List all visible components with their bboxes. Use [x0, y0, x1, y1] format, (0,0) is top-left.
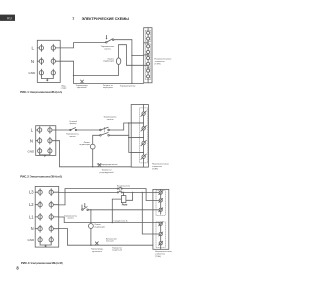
heating element E1 — [147, 31, 150, 40]
wire vertical feed bus — [128, 123, 130, 152]
heating element E4 dashed box — [145, 68, 150, 80]
wire TS3 output to entry E3 — [88, 209, 159, 211]
heating group B chain — [160, 223, 162, 250]
terminal N out of TB2 — [48, 137, 56, 144]
svg-text:Электрическая схема ЭВН (тип А: Электрическая схема ЭВН (тип А) — [30, 90, 63, 94]
wire N branch to lamp — [74, 74, 119, 76]
ground symbol of TB2 — [44, 155, 47, 157]
wire TS2 pole1 output — [109, 129, 123, 131]
svg-text:РИС.1: РИС.1 — [20, 90, 29, 94]
junction dot lamp to N bus — [92, 166, 93, 167]
label Нагревательные элементы of box 3 — [155, 251, 173, 258]
wire lamp top riser of LA3 — [90, 210, 92, 224]
terminal block TB1 — [37, 40, 60, 82]
wire vertical bus from node A down — [131, 40, 133, 84]
heater enclosure box of schematic 2 — [131, 105, 148, 168]
label Нагревательные элементы right of box — [155, 58, 173, 65]
svg-text:L3: L3 — [29, 190, 34, 195]
label Термовыключатель under TS1 — [101, 46, 115, 50]
relay left pin — [112, 198, 121, 200]
terminal N out of TB3 — [49, 225, 59, 232]
terminal L3 out of TB3 — [49, 189, 59, 196]
label Лампа индикации right of LA3 — [94, 224, 105, 228]
wire L2 riser — [64, 189, 66, 205]
wire stub bus to chain lower — [144, 54, 148, 56]
thermal cutout switch TS1 — [106, 35, 114, 43]
junction dot lamp top — [90, 209, 91, 210]
label Нагревательные элементы of box 2 — [152, 164, 170, 171]
wire tap low of box 2 — [131, 151, 143, 153]
wire L2 top line — [65, 188, 146, 190]
junction dot L3 at relay right — [132, 192, 133, 193]
wire entry E2 — [146, 199, 159, 201]
wire GND link bar of TB3 — [40, 243, 51, 245]
junction dot chain upper — [148, 42, 149, 43]
label under F2 — [66, 134, 79, 138]
svg-text:GND: GND — [28, 238, 36, 242]
terminal GND of TB1 — [39, 69, 43, 76]
section title — [72, 17, 129, 21]
wire GND link bar of TB2 — [40, 154, 50, 155]
wire L2 drop to box entry E2 — [145, 189, 147, 201]
wire L3 drop bus — [141, 192, 143, 234]
mechanical link of TS2 poles — [104, 127, 106, 132]
heating element E9 — [159, 191, 163, 195]
wire L1 from TB3 — [59, 216, 64, 218]
svg-text:GND: GND — [28, 71, 36, 75]
svg-text:N: N — [31, 226, 34, 231]
heating group A dashed box — [156, 191, 165, 216]
thermal fuse F4 — [95, 242, 98, 245]
wire lamp bottom riser — [118, 65, 120, 76]
svg-text:регулируемый: регулируемый — [100, 171, 115, 174]
terminal L1 out of TB3 — [49, 213, 59, 220]
wire lamp to TS2 pole 2 — [93, 135, 100, 144]
svg-text:индикации: индикации — [103, 61, 115, 63]
svg-text:Соединение Δ: Соединение Δ — [114, 220, 128, 223]
junction dot node A3 — [131, 83, 132, 84]
heating element E13 — [159, 232, 163, 236]
terminal L of TB2 — [36, 127, 42, 134]
terminal L3 of TB3 — [35, 189, 42, 196]
terminal block TB3 — [35, 186, 59, 247]
svg-text:Термопредохранитель: Термопредохранитель — [97, 164, 118, 166]
wire N from TB2 — [56, 140, 60, 142]
svg-text:чатель: чатель — [107, 119, 115, 121]
wire L1 drop — [63, 217, 65, 223]
indicator lamp LA1 — [116, 58, 120, 65]
label Терморегулятор — [120, 86, 137, 88]
svg-text:RU: RU — [7, 17, 12, 21]
indicator lamp LA3 — [89, 224, 94, 229]
heating element E12 — [159, 222, 163, 226]
svg-text:(ТЭН): (ТЭН) — [155, 63, 161, 65]
label Лампа индикации left of LA1 — [103, 58, 115, 62]
thermostat switch TS2 pole 2 — [100, 133, 110, 137]
terminal N of TB1 — [37, 58, 43, 65]
RU language tab — [0, 15, 15, 21]
junction dot tap upper — [131, 122, 132, 123]
heating group B dashed box — [156, 222, 165, 248]
label Термопредохранитель under F4 — [91, 249, 104, 253]
wire entry E5 — [142, 233, 159, 235]
svg-text:чатель: чатель — [104, 48, 112, 50]
label Защита от перегрева — [103, 85, 114, 89]
svg-text:L: L — [32, 46, 35, 51]
svg-text:L2: L2 — [29, 202, 34, 207]
line fuse F2 on wire L — [70, 128, 77, 131]
heating element E10 — [159, 198, 163, 202]
wire lamp bottom riser of LA3 — [90, 228, 92, 245]
junction dot feed mid — [128, 137, 129, 138]
label above F2 — [69, 120, 77, 125]
terminal GND out of TB3 — [49, 236, 53, 243]
svg-text:L1: L1 — [29, 214, 34, 219]
svg-text:чатель: чатель — [67, 218, 74, 220]
junction dot relay to L1 line — [112, 222, 113, 223]
wire L from TB1 — [60, 43, 105, 48]
junction dot chain lower — [148, 54, 149, 55]
wire lamp top riser — [118, 45, 120, 58]
wire GND link bar — [41, 76, 53, 78]
junction dot feed bus — [128, 122, 129, 123]
mechanical link of main switch poles — [119, 188, 121, 192]
heating element E3 dashed box — [145, 56, 150, 68]
thermal fuse F1 — [81, 80, 84, 83]
terminal L2 of TB3 — [35, 201, 42, 208]
wire lamp top horizontal — [119, 44, 127, 46]
heating element E2 — [147, 45, 150, 54]
label Термостат right — [112, 247, 123, 251]
terminal GND out of TB1 — [51, 69, 55, 76]
heater enclosure box of schematic 3 — [153, 189, 169, 249]
svg-text:8: 8 — [16, 266, 19, 271]
heating element E8 — [141, 154, 146, 159]
label Термостат under F3 — [100, 170, 115, 174]
heating element dashed box of schematic 2 — [140, 108, 148, 163]
wire N descender — [59, 141, 61, 167]
relay RL1 — [121, 196, 126, 203]
terminal L2 out of TB3 — [49, 201, 59, 208]
caption РИС.2 — [20, 174, 62, 178]
junction dot lamp bottom — [90, 245, 91, 246]
wire riser to heater feed — [123, 123, 125, 130]
wire relay left drop — [111, 199, 113, 222]
svg-text:хранитель: хранитель — [92, 251, 102, 253]
junction dot tap low — [131, 152, 132, 153]
terminal N of TB3 — [35, 225, 42, 232]
wire relay right riser — [132, 192, 134, 200]
relay top pin — [123, 192, 125, 195]
svg-text:питания: питания — [106, 241, 114, 243]
junction dot node A2 — [131, 55, 132, 56]
ground symbol of TB3 — [44, 245, 47, 247]
svg-text:ЭЛЕКТРИЧЕСКИЕ СХЕМЫ: ЭЛЕКТРИЧЕСКИЕ СХЕМЫ — [82, 17, 130, 21]
wire lamp bottom riser of LA2 — [92, 149, 94, 167]
heating element E14 — [159, 241, 163, 245]
svg-text:индикации: индикации — [79, 144, 90, 146]
wire N bottom line — [60, 166, 132, 168]
relay right pin — [126, 199, 133, 201]
terminal block TB2 — [36, 126, 56, 156]
wire lamp branch to heater box — [126, 64, 147, 66]
main switch pole 2 contacts — [117, 187, 122, 189]
heating group A chain — [160, 189, 162, 214]
ground symbol of TB1 — [46, 79, 49, 82]
svg-text:перегрева: перегрева — [103, 87, 114, 89]
heating element E3 — [147, 56, 150, 65]
svg-text:GND: GND — [28, 149, 36, 153]
main switch pole 1 contacts — [117, 191, 122, 193]
wire N descender — [73, 61, 75, 83]
svg-text:(ТЭН): (ТЭН) — [155, 256, 161, 258]
label Лампа индикации left of LA2 — [79, 142, 90, 146]
terminal L out of TB1 — [51, 44, 60, 51]
svg-text:Выключатель: Выключатель — [117, 185, 130, 187]
svg-text:фильтр: фильтр — [70, 122, 78, 125]
wire tap mid of box 2 — [131, 137, 143, 139]
wire feed mid stub — [129, 137, 144, 139]
wire heater feed top — [124, 122, 144, 124]
svg-text:РИС.2: РИС.2 — [20, 174, 29, 178]
junction dot lamp branch at chain — [146, 65, 147, 66]
caption РИС.3 — [21, 261, 63, 265]
heating element E11 — [159, 208, 163, 212]
svg-text:Электрическая схема ЭВН (тип Б: Электрическая схема ЭВН (тип Б) — [30, 174, 63, 178]
heating element E1 dashed box — [145, 30, 150, 42]
wire tap upper of box 2 — [131, 122, 143, 124]
svg-text:L: L — [31, 128, 34, 133]
heating element chain bus — [147, 28, 149, 83]
heating element E6 — [141, 126, 146, 131]
svg-text:Электрическая схема ЭВН (тип В: Электрическая схема ЭВН (тип В) — [30, 261, 63, 265]
terminal GND of TB3 — [38, 236, 42, 243]
svg-text:чатель: чатель — [69, 136, 76, 138]
wire N from TB1 — [60, 60, 73, 62]
wire feed low stub — [129, 151, 144, 153]
svg-text:РИС.3: РИС.3 — [21, 261, 30, 265]
svg-text:Терморегулятор: Терморегулятор — [120, 86, 137, 88]
thermal fuse F3 — [98, 163, 101, 166]
wire N descender of schematic 3 — [66, 229, 68, 246]
heater enclosure box of schematic 1 — [144, 28, 152, 83]
wire N from TB3 — [59, 228, 68, 230]
heating element E5 — [141, 111, 146, 116]
junction dot L3 at relay top — [123, 192, 124, 193]
wire L from TB2 — [56, 129, 100, 131]
junction dot L3 at bus — [142, 192, 143, 193]
junction dot tap mid — [131, 137, 132, 138]
svg-text:7: 7 — [72, 17, 74, 21]
terminal L1 of TB3 — [35, 213, 42, 220]
svg-text:(ТЭН): (ТЭН) — [152, 169, 158, 171]
thermostat switch TS3 — [82, 203, 89, 210]
caption РИС.1 — [20, 90, 62, 94]
label Термовыключатель under TS3 — [64, 215, 77, 219]
svg-text:N: N — [31, 59, 34, 64]
wire node A2 to heater box — [132, 54, 144, 56]
terminal L of TB1 — [37, 44, 43, 51]
wire N bottom line — [74, 82, 144, 84]
terminal GND of TB2 — [38, 148, 42, 155]
heating element E7 — [141, 140, 146, 145]
label above N line right — [106, 238, 118, 242]
svg-text:индикации: индикации — [94, 227, 105, 229]
terminal L out of TB2 — [48, 127, 56, 134]
heating element chain bus of schematic 2 — [143, 105, 145, 168]
heating element E2 dashed box — [145, 44, 150, 55]
wire L2 from TB3 — [59, 204, 65, 206]
junction dot N branch — [73, 75, 74, 76]
junction dot chain third — [148, 67, 149, 68]
wire from TS1 to node A — [114, 39, 132, 41]
heating element E4 — [147, 69, 150, 78]
wire TS2 pole2 output — [109, 134, 128, 136]
wire L3 line — [59, 191, 159, 193]
wire lamp branch vertical — [125, 45, 127, 66]
svg-text:N: N — [30, 138, 33, 143]
indicator lamp LA2 — [90, 144, 95, 149]
terminal GND out of TB2 — [48, 148, 52, 155]
svg-text:защитный: защитный — [112, 249, 123, 252]
label Термопредохранитель under F1 — [76, 85, 89, 89]
junction dot lamp branch crossing — [131, 65, 132, 66]
svg-text:хранитель: хранитель — [77, 87, 87, 89]
label under left area — [61, 86, 67, 90]
svg-text:Реле: Реле — [122, 203, 128, 206]
label Термовыключатель above TS2 — [103, 116, 117, 120]
terminal N of TB2 — [36, 137, 42, 144]
wire L1 line to entry E4 — [64, 222, 159, 224]
wire N bottom line — [67, 244, 152, 246]
wire stub bus to chain upper — [144, 42, 148, 44]
thermostat switch TS2 pole 1 — [100, 127, 110, 131]
terminal N out of TB1 — [51, 58, 60, 65]
